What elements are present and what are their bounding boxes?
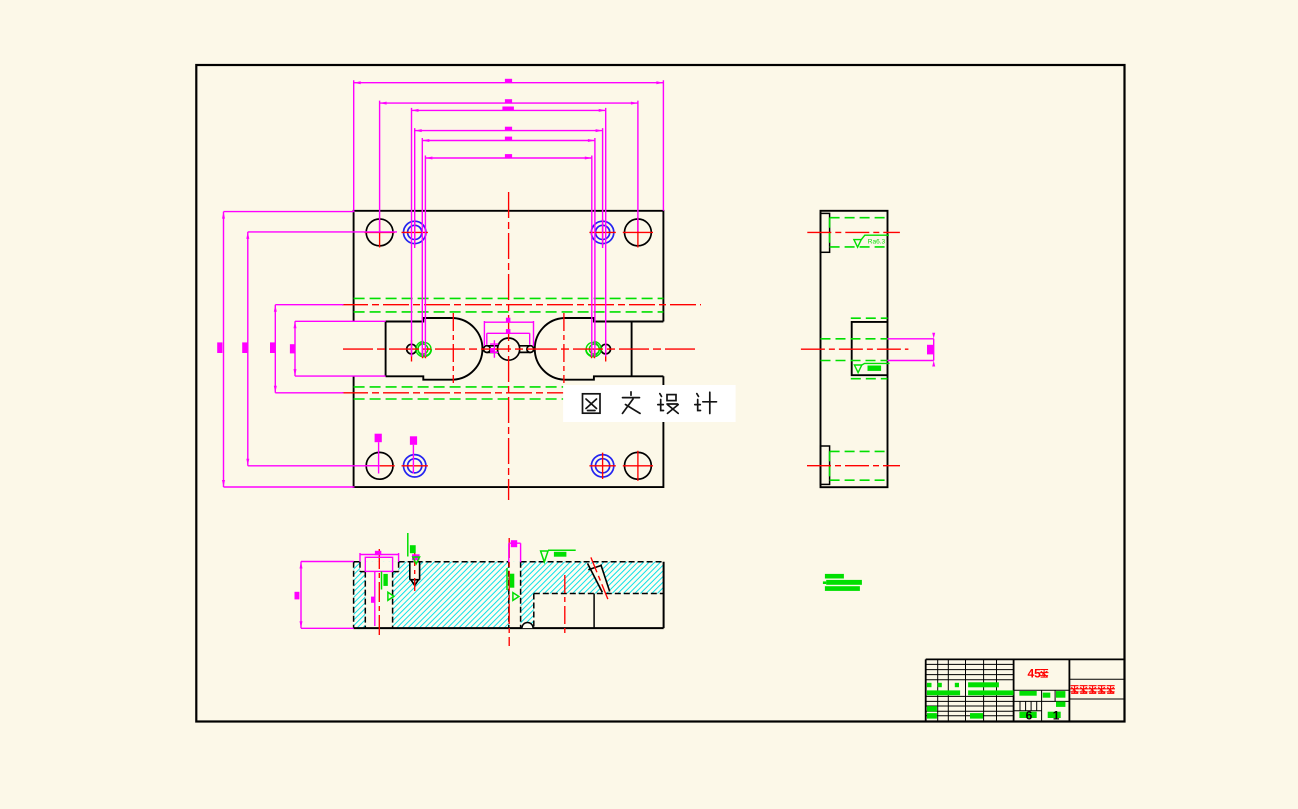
plate top band outline bbox=[354, 211, 664, 322]
symbol top right bbox=[541, 551, 548, 562]
center sprue channel bbox=[509, 562, 521, 628]
symbol at center channel bbox=[506, 568, 508, 590]
top dim line 1 bbox=[354, 80, 664, 211]
dim text rects top bbox=[505, 79, 512, 83]
center tiny vertical dim bbox=[490, 340, 498, 358]
left bracket 2 hole spacing bbox=[248, 232, 397, 466]
side view green surface symbol upper bbox=[854, 235, 889, 247]
left ear slot bbox=[487, 346, 498, 353]
left bracket 3 band spacing bbox=[275, 305, 343, 393]
strip bottom stepped edge bbox=[386, 376, 664, 379]
part name red text bbox=[1070, 686, 1115, 694]
watermark box bbox=[563, 385, 736, 422]
pin outline bbox=[410, 562, 420, 586]
hatched body bbox=[354, 562, 664, 628]
arrows left brackets bbox=[222, 212, 225, 487]
screw counterbore bbox=[360, 562, 399, 572]
central core circle bbox=[498, 338, 520, 360]
hidden parting lines upper band bbox=[354, 298, 664, 399]
symbol at screw pin bbox=[407, 533, 409, 557]
corner hole top-left bbox=[366, 219, 393, 246]
section right edge bbox=[663, 562, 665, 628]
glyph tu bbox=[583, 394, 601, 413]
strip top stepped edge bbox=[386, 318, 664, 322]
thread circles right bbox=[586, 341, 601, 356]
side view hidden lines bbox=[821, 218, 888, 481]
screw shank leader bbox=[374, 571, 376, 626]
pin channel bbox=[410, 562, 420, 580]
top dim line 3 bbox=[412, 108, 606, 357]
strip right edge bbox=[631, 322, 633, 377]
svg-text:1: 1 bbox=[1053, 709, 1060, 723]
top dim line 5 bbox=[422, 138, 595, 357]
screw clearance channel bbox=[365, 571, 392, 628]
title block right column rows bbox=[1069, 679, 1124, 699]
top dim line 6 bbox=[425, 156, 591, 357]
title block outer lines bbox=[926, 659, 1125, 721]
section outline dashed bbox=[354, 562, 664, 628]
right ear slot bbox=[519, 346, 530, 353]
dim text rects left brackets bbox=[217, 342, 222, 353]
left thickness bracket bbox=[301, 562, 354, 629]
top dim line 2 bbox=[380, 101, 638, 232]
section red centerlines bbox=[379, 538, 608, 646]
bottom hole dim leaders bbox=[378, 442, 380, 473]
glyph wen bbox=[623, 392, 641, 414]
small pin hole left bbox=[407, 344, 417, 354]
top dim line 4 bbox=[415, 128, 603, 248]
title block middle cells bbox=[1014, 689, 1070, 691]
svg-text:Ra6.3: Ra6.3 bbox=[868, 239, 886, 246]
dim text rects center bbox=[506, 318, 511, 323]
title block green text bars bbox=[927, 682, 1066, 718]
center notch block bbox=[852, 322, 888, 375]
center dim inner bbox=[487, 333, 530, 344]
key slot bottom left bbox=[821, 446, 830, 484]
title block left grid horizontals bbox=[926, 664, 1014, 679]
slanted pin outline bbox=[588, 563, 610, 592]
slot depth dim rectangle bbox=[295, 321, 386, 376]
section magenta dims bbox=[301, 543, 521, 628]
guide bush bottom-left bbox=[404, 455, 426, 477]
glyph ji bbox=[695, 394, 701, 411]
section bottom edge bbox=[354, 627, 664, 629]
ejector arc bump bbox=[522, 623, 533, 629]
plate bottom band outline bbox=[354, 376, 664, 487]
symbol at screw hole wall bbox=[381, 572, 383, 590]
arrows top dims bbox=[354, 81, 664, 84]
side view red centerlines bbox=[801, 232, 909, 465]
strip left edge bbox=[385, 322, 387, 377]
side view magenta dim bbox=[888, 339, 934, 361]
title block left grid verticals bbox=[938, 659, 997, 721]
center channel dim bbox=[509, 543, 521, 562]
key slot top left bbox=[821, 213, 830, 252]
guide bush top-right bbox=[591, 221, 613, 243]
slanted ejector pin bore bbox=[588, 563, 610, 592]
small verticals at cavity holes bbox=[412, 340, 426, 362]
drawing frame border bbox=[196, 65, 1124, 722]
left bracket 1 overall height bbox=[224, 212, 355, 487]
screw head bbox=[365, 557, 392, 571]
svg-text:45: 45 bbox=[1028, 666, 1042, 680]
left cavity bulge arc bbox=[453, 318, 482, 380]
center dim outer bbox=[484, 321, 533, 346]
glyph she bbox=[658, 394, 664, 411]
dim text rects bottom holes bbox=[375, 434, 382, 443]
guide bush top-left bbox=[404, 221, 426, 243]
corner hole top-right bbox=[625, 219, 652, 246]
corner hole bottom-right bbox=[625, 452, 652, 479]
section green surface symbols bbox=[382, 533, 576, 600]
corner hole bottom-left bbox=[366, 452, 393, 479]
open notch bottom right bbox=[534, 594, 664, 629]
svg-text:6: 6 bbox=[1026, 709, 1033, 723]
small pin hole right bbox=[601, 344, 611, 354]
thread circles left bbox=[416, 341, 431, 356]
side view green surface symbol lower bbox=[854, 363, 889, 372]
hole center crosses bbox=[365, 217, 395, 247]
notch divider bbox=[593, 594, 595, 629]
technical note green text bars bbox=[823, 574, 862, 591]
red centerlines main view bbox=[342, 192, 701, 500]
guide bush bottom-right bbox=[591, 455, 613, 477]
right cavity bulge arc bbox=[535, 318, 564, 380]
side view outline bbox=[821, 211, 888, 487]
